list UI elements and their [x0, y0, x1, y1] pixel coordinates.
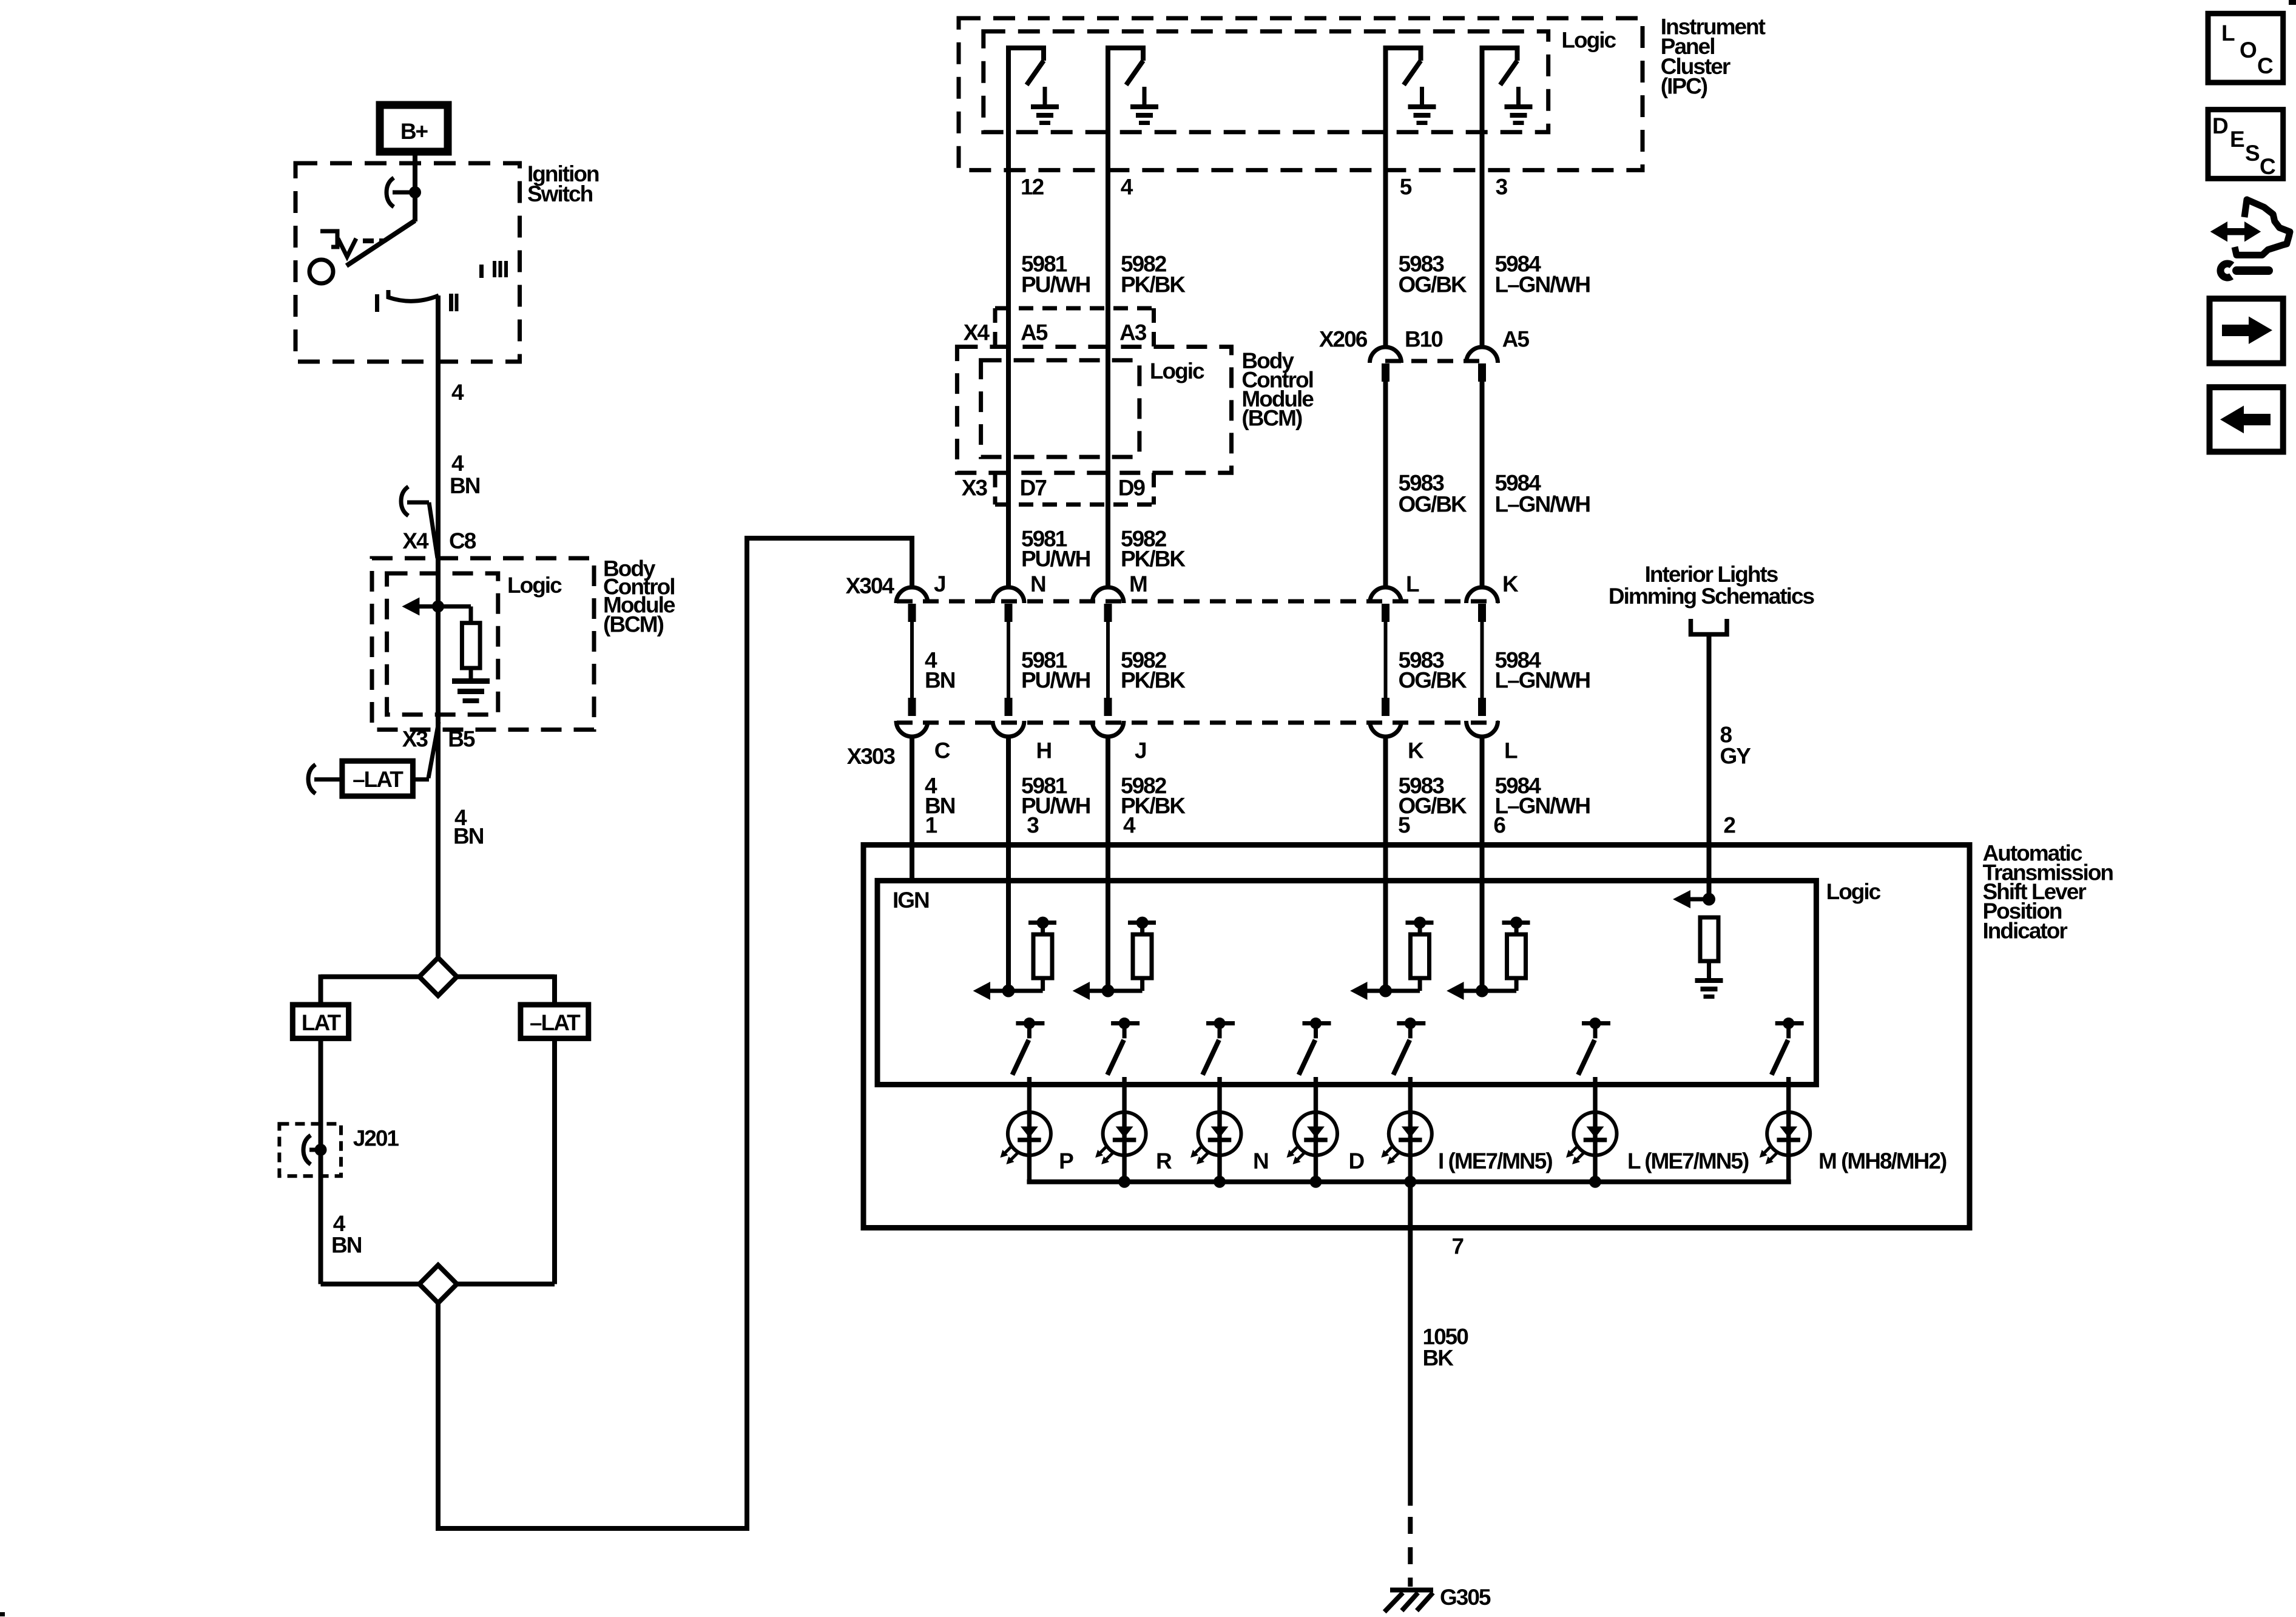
svg-text:B+: B+ [400, 119, 428, 144]
svg-text:M: M [1129, 572, 1147, 596]
label X206 B10 A5 [1319, 327, 1529, 352]
switch R [1107, 1018, 1140, 1113]
icon next arrow [2210, 299, 2283, 363]
svg-text:G305: G305 [1440, 1585, 1491, 1610]
svg-text:L–GN/WH: L–GN/WH [1495, 492, 1590, 517]
ignition detent arc [388, 290, 439, 301]
BCM left title [603, 556, 675, 636]
switch M [1772, 1018, 1804, 1113]
svg-text:J: J [1135, 738, 1146, 763]
BCM left dashed box [372, 558, 594, 730]
label 8 GY [1720, 723, 1752, 769]
IPC pin numbers [1021, 175, 1508, 200]
LED N [1190, 1112, 1241, 1182]
svg-text:I (ME7/MN5): I (ME7/MN5) [1438, 1149, 1552, 1173]
wire 5984 IPC to X206 [1480, 170, 1485, 346]
wire 5982 X304-X303 [1106, 620, 1110, 699]
connector X3 B5 in-line [413, 722, 439, 780]
connector X206 pin A5 [1467, 347, 1498, 382]
svg-text:C8: C8 [449, 528, 476, 553]
connector X303 pin H [993, 698, 1024, 737]
svg-text:Logic: Logic [1826, 879, 1881, 904]
label 5981 PU/WH row3 [1021, 648, 1090, 693]
svg-text:Indicator: Indicator [1983, 918, 2068, 943]
connector X304 pin L [1370, 587, 1402, 622]
shift indicator Logic label [1826, 879, 1881, 904]
label 5982 PK/BK row1 [1121, 252, 1186, 297]
wire 8 GY dimming [1707, 634, 1712, 899]
wire B+ to ignition switch [413, 152, 417, 194]
-LAT signal box [342, 761, 413, 796]
label 5982 PK/BK row4 [1121, 774, 1186, 819]
svg-text:Interior Lights: Interior Lights [1645, 562, 1778, 587]
shift indicator pin numbers [925, 813, 1736, 838]
svg-text:7: 7 [1452, 1234, 1464, 1259]
shift indicator logic box [877, 880, 1816, 1084]
label 4 BN row4 [925, 774, 955, 819]
connector X304 pin K [1467, 587, 1498, 622]
ignition position mark II [449, 294, 459, 311]
pull-up unit N/D input [1073, 737, 1156, 1000]
label 4 BN mid [453, 805, 484, 848]
label 5983 OG/BK row1 [1399, 252, 1468, 297]
svg-text:Logic: Logic [507, 573, 562, 598]
wire splice to -LAT branch [457, 974, 555, 1005]
connector X206 dashed line [1385, 359, 1482, 363]
connector X3 dashed outline [995, 473, 1154, 504]
wire -LAT branch to splice [457, 1281, 555, 1284]
LED R [1095, 1112, 1146, 1182]
BCM mid title [1241, 348, 1314, 430]
svg-text:C: C [2260, 154, 2275, 179]
-LAT signal hook [308, 765, 342, 794]
svg-text:–LAT: –LAT [530, 1010, 581, 1035]
svg-text:Switch: Switch [527, 181, 593, 206]
pull-up unit P/R input [973, 737, 1056, 1000]
wire 5981 IPC to X304 [1006, 170, 1011, 588]
svg-text:L: L [2221, 21, 2235, 46]
svg-text:(IPC): (IPC) [1661, 74, 1707, 99]
ignition position mark I [375, 294, 379, 312]
BCM left Logic label [507, 573, 562, 598]
label 5984 L-GN/WH row3 [1495, 648, 1590, 693]
svg-text:BN: BN [331, 1232, 362, 1257]
svg-text:X4: X4 [402, 528, 429, 553]
connector X304 dashed line [897, 599, 1499, 604]
label IGN [893, 888, 929, 913]
svg-text:X303: X303 [847, 744, 896, 769]
page corner mark [2289, 0, 2296, 5]
svg-text:PK/BK: PK/BK [1121, 668, 1186, 693]
svg-text:1: 1 [925, 813, 937, 838]
svg-text:K: K [1408, 738, 1424, 763]
wire 5983 X206 to X304 [1383, 379, 1388, 588]
svg-text:BN: BN [925, 668, 955, 693]
wire 5984 X206 to X304 [1480, 379, 1485, 588]
label 5983 OG/BK row2 [1399, 471, 1468, 517]
wire 4 BN X303 to IGN [910, 737, 914, 880]
svg-text:2: 2 [1723, 813, 1735, 838]
connector X4 dashed outline [995, 308, 1154, 347]
IPC dashed box [959, 18, 1643, 170]
IPC title [1661, 15, 1766, 99]
svg-text:L–GN/WH: L–GN/WH [1495, 668, 1590, 693]
wire 5981 X304-X303 [1007, 620, 1010, 699]
svg-text:J201: J201 [353, 1126, 399, 1150]
switch N [1203, 1018, 1235, 1113]
IPC driver switch pin5 [1383, 48, 1436, 172]
LED M [1760, 1112, 1811, 1182]
svg-text:PU/WH: PU/WH [1021, 668, 1090, 693]
svg-text:D: D [2212, 113, 2228, 138]
label 5984 L-GN/WH row2 [1495, 471, 1590, 517]
connector X303 pin L [1467, 698, 1498, 737]
pull-up unit M input [1447, 737, 1530, 1000]
wire ignition output 4 BN [436, 295, 441, 957]
svg-text:OG/BK: OG/BK [1399, 668, 1468, 693]
label 1050 BK [1423, 1325, 1469, 1371]
interior lights dimming label [1609, 562, 1815, 609]
ignition key symbol [320, 231, 385, 257]
svg-text:PU/WH: PU/WH [1021, 547, 1090, 572]
junction BCM input [432, 601, 444, 613]
svg-text:5: 5 [1400, 175, 1412, 200]
svg-text:Logic: Logic [1150, 359, 1204, 383]
wire 1050 BK [1408, 1182, 1413, 1506]
IPC driver switch pin4 [1106, 48, 1158, 172]
svg-text:L (ME7/MN5): L (ME7/MN5) [1627, 1149, 1749, 1173]
svg-text:A5: A5 [1502, 327, 1530, 352]
svg-text:X206: X206 [1319, 327, 1368, 352]
LED L [1566, 1112, 1617, 1182]
label X304 pin letters [934, 572, 1519, 596]
svg-text:PU/WH: PU/WH [1021, 272, 1090, 297]
connector X303 dashed line [897, 721, 1499, 725]
BCM mid logic dashed box [981, 360, 1140, 457]
label 5983 OG/BK row4 [1399, 774, 1468, 819]
wire LAT branch to splice [321, 1281, 420, 1284]
svg-text:(BCM): (BCM) [1241, 405, 1302, 430]
svg-text:BK: BK [1423, 1346, 1454, 1371]
svg-text:A5: A5 [1021, 320, 1048, 345]
connector X303 pin J [1092, 698, 1124, 737]
svg-text:P: P [1059, 1149, 1073, 1173]
label 4 BN row3 [925, 648, 955, 693]
svg-text:5: 5 [1398, 813, 1410, 838]
svg-text:L–GN/WH: L–GN/WH [1495, 794, 1590, 819]
svg-text:D9: D9 [1118, 476, 1146, 501]
svg-text:C: C [934, 738, 950, 763]
svg-text:R: R [1156, 1149, 1172, 1173]
label 5982 PK/BK row3 [1121, 648, 1186, 693]
label 5984 L-GN/WH row1 [1495, 252, 1590, 297]
icon DESC [2208, 110, 2283, 179]
svg-text:N: N [1030, 572, 1045, 596]
switch P [1012, 1018, 1044, 1113]
IPC Logic label [1561, 27, 1616, 52]
svg-text:(BCM): (BCM) [603, 612, 664, 637]
connector X304 pin N [993, 587, 1024, 622]
battery feed B+ [380, 105, 448, 152]
svg-text:IGN: IGN [893, 888, 929, 913]
svg-text:Logic: Logic [1561, 27, 1616, 52]
label X4 C8 [402, 528, 476, 553]
BCM mid dashed box [957, 347, 1231, 473]
svg-text:3: 3 [1496, 175, 1508, 200]
ignition switch feed terminal hook [387, 178, 415, 207]
label 5981 PU/WH row4 [1021, 774, 1090, 819]
svg-text:X3: X3 [402, 726, 428, 751]
svg-text:12: 12 [1021, 175, 1044, 200]
label X4 A5 A3 [964, 320, 1147, 345]
svg-text:PK/BK: PK/BK [1121, 272, 1186, 297]
BCM input sense arrow [402, 598, 471, 616]
icon LOC [2208, 13, 2283, 83]
switch D [1299, 1018, 1331, 1113]
svg-text:D: D [1349, 1149, 1365, 1173]
splice diamond upper [419, 957, 457, 996]
BCM pull-down resistor [462, 607, 480, 681]
label X3 D7 D9 [962, 476, 1146, 501]
BCM internal ground [452, 678, 490, 703]
label 5983 OG/BK row3 [1399, 648, 1468, 693]
IPC logic dashed box [984, 32, 1548, 132]
icon wrench arrows [2210, 200, 2290, 277]
ignition position mark I III [479, 261, 508, 278]
wire 5984 X304-X303 [1481, 620, 1484, 699]
svg-text:BN: BN [453, 824, 484, 849]
dimming input junction [1703, 893, 1715, 906]
IPC driver switch pin12 [1006, 48, 1059, 172]
page bottom mark [0, 1612, 5, 1616]
svg-text:L: L [1504, 738, 1518, 763]
connector X206 pin B10 [1370, 347, 1402, 382]
label circuit 4 [451, 380, 464, 405]
svg-text:OG/BK: OG/BK [1399, 492, 1468, 517]
shift indicator box [863, 845, 1970, 1228]
label 4 BN lower [331, 1211, 362, 1257]
label 4 BN upper [450, 451, 480, 498]
junction J201 [315, 1144, 327, 1156]
svg-text:4: 4 [1121, 175, 1133, 200]
wire 1050 BK dashed [1408, 1517, 1413, 1587]
svg-text:X304: X304 [846, 573, 895, 598]
LAT box [292, 1005, 348, 1039]
label X303 [847, 744, 896, 769]
ignition switch label [527, 161, 599, 206]
LED P [1000, 1112, 1051, 1182]
switch I [1393, 1018, 1425, 1113]
connector X304 pin J [896, 587, 928, 622]
label 5981 PU/WH row1 [1021, 252, 1090, 297]
svg-text:M (MH8/MH2): M (MH8/MH2) [1818, 1149, 1947, 1173]
svg-text:PK/BK: PK/BK [1121, 547, 1186, 572]
IPC ground pin12 leg [0, 0, 1, 1]
BCM left logic dashed box [387, 573, 498, 715]
label X3 B5 [402, 726, 475, 751]
LED labels [1059, 1149, 1947, 1173]
svg-text:E: E [2230, 127, 2244, 152]
connector X304 pin M [1092, 587, 1124, 622]
wire 5983 X304-X303 [1384, 620, 1388, 699]
connector X303 pin C [896, 698, 928, 737]
icon prev arrow [2210, 387, 2283, 451]
shift indicator title [1983, 840, 2113, 943]
wire 5982 IPC to X304 [1106, 170, 1110, 588]
splice diamond lower [419, 1265, 457, 1303]
wire splice to LAT branch [321, 974, 420, 1005]
svg-text:H: H [1036, 738, 1052, 763]
IPC driver switch pin3 [1480, 48, 1533, 172]
svg-text:K: K [1502, 572, 1519, 596]
svg-text:Dimming Schematics: Dimming Schematics [1609, 584, 1815, 609]
interior lights off-page fork [1691, 619, 1727, 635]
ignition switch blade [346, 191, 415, 266]
wire 5983 IPC to X206 [1383, 170, 1388, 346]
svg-text:OG/BK: OG/BK [1399, 272, 1468, 297]
label 5982 PK/BK row2 [1121, 527, 1186, 572]
LED cathode bus [1027, 1180, 1791, 1184]
svg-text:–LAT: –LAT [353, 767, 403, 792]
junction ignition feed [409, 186, 421, 198]
wire splice to X304 J long run [436, 536, 914, 1531]
svg-text:B5: B5 [448, 726, 475, 751]
switch L [1578, 1018, 1610, 1113]
label X303 pin letters [934, 738, 1518, 763]
dimming resistor [1700, 917, 1718, 981]
ignition switch rotor contact [309, 260, 333, 283]
svg-text:O: O [2240, 38, 2257, 62]
wire LAT branch down [319, 1038, 323, 1284]
splice J201 hook [303, 1135, 321, 1164]
label X304 [846, 573, 895, 598]
wire 4 BN X304-X303 [910, 620, 914, 699]
label 5984 L-GN/WH row4 [1495, 774, 1590, 819]
svg-text:6: 6 [1493, 813, 1505, 838]
pull-up unit I/L input [1350, 737, 1433, 1000]
svg-text:GY: GY [1720, 744, 1752, 769]
svg-text:LAT: LAT [302, 1010, 342, 1035]
label G305 [1440, 1585, 1491, 1610]
svg-text:4: 4 [451, 451, 464, 476]
splice J201 dashed box [279, 1124, 341, 1176]
bus junctions [1118, 1176, 1601, 1188]
label 5981 PU/WH row2 [1021, 527, 1090, 572]
svg-text:L–GN/WH: L–GN/WH [1495, 272, 1590, 297]
connector X4 C8 in-line [401, 487, 437, 558]
svg-text:A3: A3 [1119, 320, 1147, 345]
ignition switch dashed box [295, 163, 520, 362]
dimming internal ground [1695, 978, 1723, 999]
LED I [1381, 1112, 1432, 1182]
wire -LAT branch down [552, 1038, 557, 1284]
svg-text:4: 4 [1123, 813, 1136, 838]
svg-text:3: 3 [1027, 813, 1039, 838]
ground G305 [1385, 1590, 1433, 1612]
BCM mid Logic label [1150, 359, 1204, 383]
svg-text:4: 4 [451, 380, 464, 405]
connector X303 pin K [1370, 698, 1402, 737]
svg-text:D7: D7 [1020, 476, 1047, 501]
dimming sense arrow [1673, 890, 1709, 908]
svg-text:S: S [2245, 141, 2260, 166]
label J201 [353, 1126, 399, 1150]
svg-text:X4: X4 [964, 320, 990, 345]
svg-text:N: N [1253, 1149, 1268, 1173]
svg-text:X3: X3 [962, 476, 988, 501]
svg-text:BN: BN [450, 473, 480, 498]
svg-text:J: J [934, 572, 945, 596]
svg-text:L: L [1406, 572, 1419, 596]
svg-text:B10: B10 [1405, 327, 1443, 352]
svg-text:C: C [2257, 53, 2273, 78]
-LAT box [521, 1005, 589, 1039]
LED D [1287, 1112, 1338, 1182]
label pin 7 [1452, 1234, 1464, 1259]
